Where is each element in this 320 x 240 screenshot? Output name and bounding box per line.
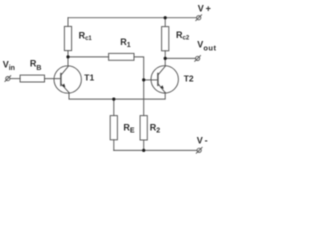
terminal V+ xyxy=(196,15,202,21)
transistor T1 xyxy=(54,66,81,93)
wire bottom rail xyxy=(114,149,197,151)
wire top rail xyxy=(68,17,197,19)
wire Vin to RB xyxy=(10,78,20,80)
transistor T2 xyxy=(151,66,178,93)
terminal Vin xyxy=(5,76,11,82)
svg-text:V -: V - xyxy=(197,136,208,146)
wire Vout xyxy=(165,57,195,59)
node T2 base junction xyxy=(142,78,145,81)
resistor Rc1 xyxy=(64,18,71,57)
terminal Vout xyxy=(195,56,201,62)
resistor Rc2 xyxy=(162,18,169,59)
svg-text:T1: T1 xyxy=(84,73,94,83)
svg-text:V +: V + xyxy=(198,4,211,14)
wire T1 emitter xyxy=(69,92,165,99)
node top rail / Rc2 junction xyxy=(164,16,167,19)
wire T2 collector xyxy=(164,58,166,65)
terminal V- xyxy=(196,147,202,153)
wire T2 base xyxy=(144,79,158,81)
resistor RB xyxy=(20,75,44,82)
node emitter/RE junction xyxy=(112,98,115,101)
resistor R2 xyxy=(140,116,147,151)
node R2 / bottom rail junction xyxy=(142,149,145,152)
node Rc1/R1 junction xyxy=(66,55,69,58)
wire RB to T1 base xyxy=(45,78,62,80)
svg-text:T2: T2 xyxy=(184,74,194,84)
resistor R1 xyxy=(109,53,134,60)
resistor RE xyxy=(110,99,117,150)
node Rc2/Vout junction xyxy=(164,57,167,60)
wire R1 row xyxy=(68,56,109,58)
wire R1 to T2 base / R2 column xyxy=(134,57,144,116)
wire T1 collector xyxy=(67,57,69,66)
